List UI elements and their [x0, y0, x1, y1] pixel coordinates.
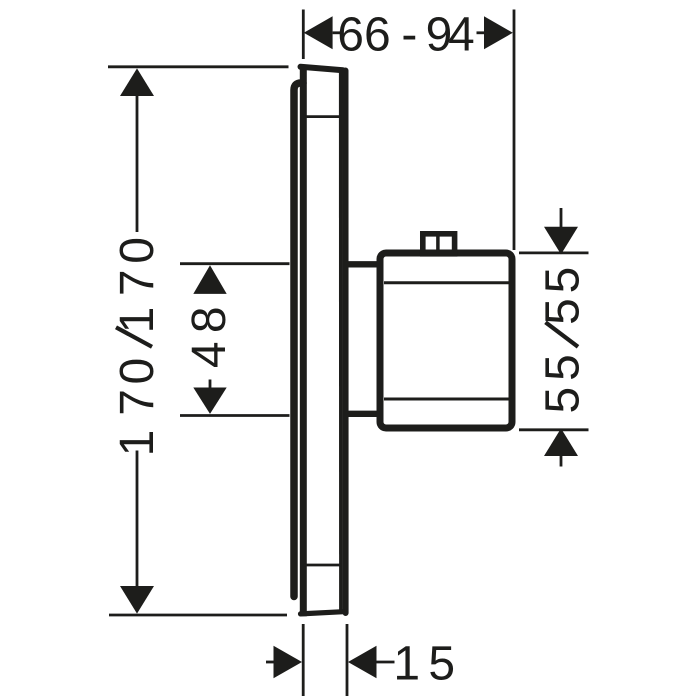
- dim 15 extension line right: [346, 624, 349, 696]
- dim 66-94 extension line left: [302, 10, 305, 60]
- dim 48 arrow top: [193, 265, 226, 294]
- dim 48 line stub: [209, 380, 212, 388]
- dim 66-94 arrow right: [484, 16, 513, 49]
- dim 55/55 extension line top: [519, 251, 589, 254]
- thermostat handle body: [380, 253, 512, 428]
- dim 15 stub left: [266, 661, 275, 664]
- escutcheon bezel right (front) edge: [343, 71, 349, 614]
- dim 15 arrow left: [274, 646, 303, 678]
- bezel joint line bottom: [304, 564, 341, 567]
- dim 170/170 line lower segment: [136, 451, 139, 587]
- dim 55/55 stub bottom: [560, 456, 563, 467]
- dim 66-94 line stub right: [477, 31, 485, 34]
- dim 48 arrow bottom: [193, 388, 226, 414]
- safety stop button: [423, 234, 455, 254]
- handle inner line bottom: [384, 398, 509, 401]
- bezel front inner chamfer line: [339, 72, 343, 610]
- dim 170/170 label slash: [116, 327, 152, 347]
- safety stop button divider: [436, 232, 440, 252]
- dim 15 arrow right: [348, 646, 377, 678]
- dim 55/55 arrow bottom: [544, 428, 578, 456]
- dim 170/170 extension line bottom: [109, 614, 287, 617]
- dim 170/170 arrow top: [120, 68, 154, 96]
- handle spindle top line: [348, 261, 380, 267]
- escutcheon bezel top edge: [301, 67, 344, 71]
- bezel joint line top: [304, 115, 341, 118]
- wall plate back flange: [294, 83, 303, 597]
- handle spindle bottom line: [348, 411, 380, 417]
- dim 55/55 label slash: [546, 322, 579, 347]
- dim 66-94 line stub left: [333, 31, 340, 34]
- dim 66-94 extension line right: [513, 10, 516, 251]
- dim 48 extension line top: [180, 262, 290, 265]
- handle inner line top: [384, 281, 509, 284]
- dim 15 extension line left: [302, 624, 305, 696]
- dim 170/170 extension line top: [108, 65, 289, 68]
- dim 170/170 arrow bottom: [120, 586, 154, 614]
- dim 55/55 arrow top: [544, 227, 578, 255]
- escutcheon bezel left edge: [300, 65, 307, 617]
- dim 170/170 line upper segment: [136, 95, 139, 232]
- escutcheon bezel bottom edge: [301, 612, 344, 614]
- dim 55/55 stub top: [560, 208, 563, 227]
- dim 66-94 arrow left: [304, 16, 333, 49]
- svg-text:66-94: 66-94: [337, 9, 474, 62]
- dim 15 stub right: [375, 661, 394, 664]
- dim 48 extension line bottom: [180, 414, 290, 417]
- dim 55/55 extension line bottom: [519, 428, 589, 431]
